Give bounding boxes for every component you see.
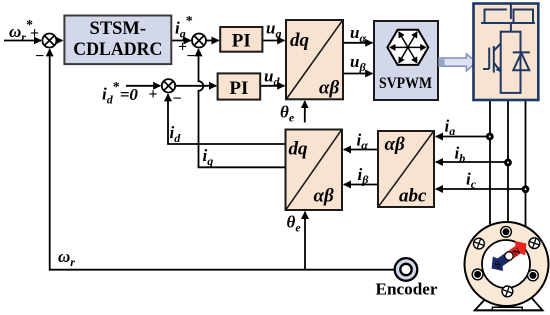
wire: theta_e from wr line into lower dq block xyxy=(304,212,306,270)
wire: id* reference to summing junction S3 xyxy=(126,85,160,87)
bolt dark top xyxy=(501,226,512,237)
svg-text:CDLADRC: CDLADRC xyxy=(73,40,162,60)
inverter DC bus stub xyxy=(510,5,512,20)
svg-text:iq*: iq* xyxy=(175,14,193,41)
svg-text:PI: PI xyxy=(229,78,248,99)
IGBT-diode loop xyxy=(501,32,521,93)
block PI2: d-axis current PI controller xyxy=(218,73,261,99)
svg-text:αβ: αβ xyxy=(385,134,406,155)
motor stand xyxy=(475,291,543,310)
svg-text:uα: uα xyxy=(350,23,366,45)
svg-text:dq: dq xyxy=(289,139,309,160)
wire: iq feedback horizontal from dq2 block xyxy=(198,166,286,168)
wire: STSM-CDLADRC output iq* to summing junction S2 xyxy=(171,40,190,42)
wire: inverter phase A line to motor xyxy=(489,100,491,226)
wire: theta_e stub into upper dq/ab block xyxy=(304,101,306,123)
bolt dark lower-right xyxy=(528,270,539,281)
wire: ic from phase C into ab/abc block xyxy=(436,188,525,190)
motor inner bore xyxy=(482,240,530,288)
block U1: STSM-CDLADRC controller xyxy=(64,16,171,65)
svg-text:ia: ia xyxy=(445,117,456,139)
svg-text:abc: abc xyxy=(399,186,427,207)
junction dot phase A xyxy=(486,133,494,141)
block T2: Park transform alpha-beta to dq xyxy=(286,130,343,211)
svg-text:Encoder: Encoder xyxy=(376,280,438,299)
wire: ua from dq/ab to SVPWM xyxy=(343,42,372,44)
wire: i_beta from ab/abc to dq2 block xyxy=(344,184,378,186)
svg-text:iα: iα xyxy=(357,131,369,153)
bolt cross upper-left xyxy=(472,237,486,251)
wire: inverter phase B line to motor xyxy=(507,100,509,223)
wire: summing junction S2 to PI1 xyxy=(206,40,219,42)
bolt dark lower-left xyxy=(472,269,483,280)
block T3: Clarke transform abc to alpha-beta xyxy=(378,131,434,207)
svg-text:iq: iq xyxy=(203,146,214,168)
diode D1 xyxy=(513,52,530,70)
svg-text:iβ: iβ xyxy=(358,165,370,187)
motor stand notch xyxy=(492,307,522,310)
svg-text:uβ: uβ xyxy=(350,52,366,74)
svg-text:SVPWM: SVPWM xyxy=(379,75,432,92)
IGBT emitter arrowhead xyxy=(496,67,501,72)
svg-text:−: − xyxy=(187,48,196,65)
block U3: voltage source inverter xyxy=(474,4,539,101)
wire: id feedback from dq2 block into S3 minus xyxy=(168,94,286,144)
svg-text:+: + xyxy=(149,86,158,103)
icon: space-vector hexagon inside SVPWM xyxy=(387,30,428,65)
svg-text:θe: θe xyxy=(287,213,302,235)
svg-text:αβ: αβ xyxy=(314,186,335,207)
wire: iq feedback vertical with hop over ud line, into S2 minus xyxy=(199,49,204,167)
svg-text:dq: dq xyxy=(290,30,310,51)
wire: inverter phase C line to motor xyxy=(525,100,527,227)
block PI1: q-axis current PI controller xyxy=(220,27,262,52)
svg-text:ib: ib xyxy=(455,144,466,166)
svg-text:id*=0: id*=0 xyxy=(102,80,138,107)
wire: i_alpha from ab/abc to dq2 block xyxy=(344,149,378,151)
wire: PI1 output uq to dq/ab block xyxy=(262,40,284,42)
svg-text:id: id xyxy=(170,123,182,145)
wire: encoder speed feedback wr to S1 minus xyxy=(50,49,395,270)
svg-text:STSM-: STSM- xyxy=(90,19,147,39)
wire: ia from phase A into ab/abc block xyxy=(436,136,490,138)
svg-text:ud: ud xyxy=(264,67,280,89)
svg-text:+: + xyxy=(30,25,39,42)
transistor Q1 (IGBT) xyxy=(483,68,489,70)
svg-text:ωr: ωr xyxy=(58,247,75,269)
wire: summing junction S1 to STSM-CDLADRC xyxy=(56,40,62,42)
bolt cross bottom xyxy=(500,284,514,298)
svg-text:uq: uq xyxy=(266,19,281,41)
summing junction S2 xyxy=(192,34,206,48)
svg-text:θe: θe xyxy=(280,103,295,125)
inverter top-left cell xyxy=(485,10,507,24)
block U2: SVPWM modulator xyxy=(374,21,438,100)
svg-text:αβ: αβ xyxy=(319,78,340,99)
wire: ub from dq/ab to SVPWM xyxy=(343,73,372,75)
motor M1: PMSM xyxy=(465,222,549,310)
wire: PI2 output ud to dq/ab block xyxy=(260,85,284,87)
wire: summing junction S3 to PI2 xyxy=(175,85,216,87)
inverter DC-link separator xyxy=(481,22,535,24)
junction dot phase B xyxy=(504,159,512,167)
inverter top-right cell xyxy=(514,10,534,24)
block arrow: SVPWM gate signals to inverter xyxy=(439,54,476,71)
svg-text:ic: ic xyxy=(466,170,477,192)
summing junction S1 xyxy=(42,34,56,48)
rotor magnet N-S needle xyxy=(486,236,531,275)
svg-text:PI: PI xyxy=(232,31,251,52)
block T1: inverse Park transform dq to alpha-beta xyxy=(286,20,343,99)
bolt cross upper-right xyxy=(527,236,541,250)
junction dot phase C xyxy=(522,185,530,193)
svg-text:−: − xyxy=(173,91,182,108)
summing junction S3 xyxy=(162,79,175,92)
svg-text:−: − xyxy=(35,48,44,65)
encoder E1 xyxy=(376,258,438,298)
motor outer housing xyxy=(465,222,549,306)
wire: speed reference input xyxy=(4,40,41,42)
wire: ib from phase B into ab/abc block xyxy=(436,161,508,163)
